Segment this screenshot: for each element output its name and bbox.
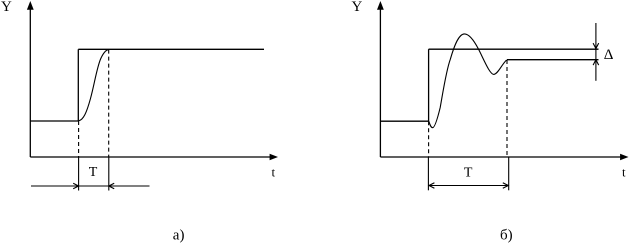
- svg-text:t: t: [622, 165, 626, 180]
- response curve (right, oscillatory with overshoot): [429, 34, 507, 128]
- dimension arrowhead pointing left at step start (right): [429, 183, 434, 189]
- dashed line at settling time (right): [506, 60, 508, 157]
- svg-text:б): б): [500, 228, 513, 244]
- svg-text:T: T: [89, 165, 98, 180]
- response curve (left, aperiodic S-curve): [79, 50, 109, 121]
- dashed line at step start (right): [428, 121, 430, 157]
- tolerance band arrowhead pointing up (right): [593, 60, 599, 65]
- svg-text:Y: Y: [352, 0, 363, 15]
- svg-text:T: T: [464, 165, 473, 180]
- dashed line at step start (left): [78, 121, 80, 157]
- step input high level line (right): [429, 48, 599, 50]
- step input high level line (left): [78, 48, 264, 50]
- settled value line (right): [507, 59, 599, 61]
- dimension arrowhead pointing right at settling time (right): [503, 183, 508, 189]
- t axis line (right): [380, 156, 621, 158]
- dimension arrowhead pointing left at settling point (left): [109, 183, 114, 189]
- t axis line (left): [30, 156, 270, 158]
- Y axis line (left): [29, 9, 31, 157]
- tolerance band vertical line (right): [595, 23, 597, 81]
- svg-text:t: t: [272, 165, 276, 180]
- extension line below axis at settling point (left): [108, 157, 110, 191]
- step input low level line (right): [380, 120, 428, 122]
- Y axis arrowhead (right): [377, 1, 384, 10]
- extension line below axis at step start (right): [427, 157, 429, 190]
- extension line below axis at settling time (right): [508, 157, 510, 190]
- Y axis arrowhead (left): [27, 1, 34, 10]
- svg-text:Δ: Δ: [604, 47, 614, 63]
- dimension line for T (left): [31, 185, 150, 187]
- extension line below axis at step start (left): [78, 157, 80, 191]
- dashed line at settling point (left): [108, 50, 110, 157]
- t axis arrowhead (left): [270, 154, 278, 160]
- step input rising edge (left): [77, 49, 79, 121]
- Y axis line (right): [379, 9, 381, 157]
- t axis arrowhead (right): [620, 154, 628, 160]
- svg-text:Y: Y: [1, 0, 12, 15]
- dimension arrowhead pointing right at step start (left): [73, 183, 78, 189]
- dimension double arrow for T (right): [429, 185, 508, 187]
- step input low level line (left): [30, 120, 78, 122]
- tolerance band arrowhead pointing down (right): [593, 43, 599, 48]
- svg-text:а): а): [173, 228, 185, 244]
- step input rising edge (right): [428, 49, 430, 121]
